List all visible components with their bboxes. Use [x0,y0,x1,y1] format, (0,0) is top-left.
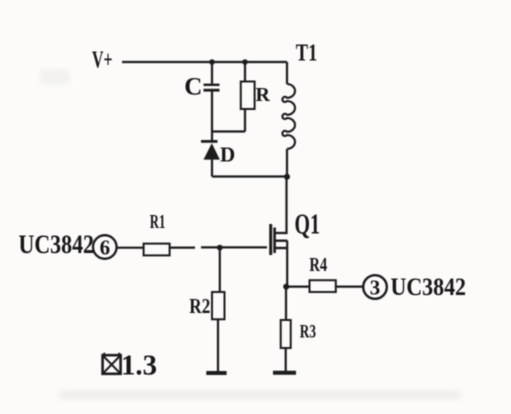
svg-text:R3: R3 [300,322,316,342]
svg-text:Q1: Q1 [295,209,321,241]
svg-text:R: R [256,84,271,106]
svg-text:3: 3 [370,276,381,300]
svg-text:6: 6 [100,236,111,260]
svg-text:V+: V+ [92,48,113,74]
svg-text:C: C [184,74,202,101]
svg-text:T1: T1 [296,41,318,67]
svg-text:UC3842: UC3842 [19,230,95,259]
svg-text:D: D [220,143,235,167]
svg-text:R1: R1 [150,211,166,233]
svg-text:R4: R4 [309,255,327,276]
svg-text:1.3: 1.3 [121,350,157,382]
svg-text:R2: R2 [189,294,210,318]
svg-text:UC3842: UC3842 [391,274,467,301]
